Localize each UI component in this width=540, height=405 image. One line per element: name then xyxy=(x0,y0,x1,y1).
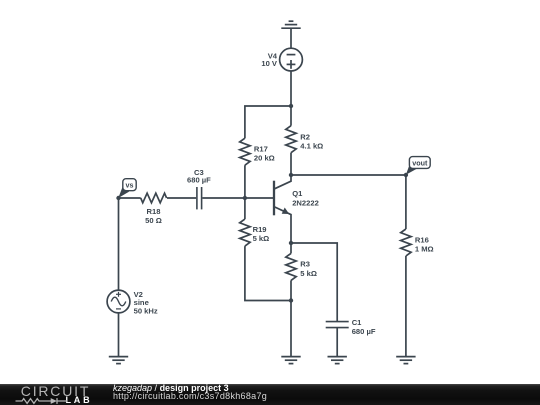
svg-text:50 Ω: 50 Ω xyxy=(145,216,162,225)
node emitter junction xyxy=(289,241,293,245)
ground (below V2) xyxy=(109,357,128,364)
node vout junction xyxy=(404,173,408,177)
resistor R16 1 MOhm xyxy=(401,175,434,357)
svg-text:R2: R2 xyxy=(300,132,310,141)
transistor Q1 2N2222 xyxy=(274,175,319,243)
ground (top, above V4) xyxy=(281,21,300,48)
svg-text:680 µF: 680 µF xyxy=(187,175,211,184)
svg-text:R16: R16 xyxy=(415,235,429,244)
wire V2 to ground xyxy=(118,313,120,357)
svg-text:sine: sine xyxy=(134,298,149,307)
wire R3 bottom node to ground xyxy=(290,301,292,357)
resistor R17 20 kOhm xyxy=(240,106,291,198)
capacitor C1 680 uF xyxy=(326,318,376,336)
svg-text:10 V: 10 V xyxy=(261,59,278,68)
voltage source V4 xyxy=(261,48,302,71)
svg-text:C1: C1 xyxy=(352,318,362,327)
node collector junction xyxy=(289,173,293,177)
node vs junction xyxy=(116,196,120,200)
net flag vout xyxy=(406,157,430,175)
svg-text:20 kΩ: 20 kΩ xyxy=(254,154,275,163)
svg-text:V2: V2 xyxy=(134,290,143,299)
wire vs node to V2 xyxy=(118,198,120,290)
resistor R19 5 kOhm xyxy=(240,198,291,301)
attribution line 1 xyxy=(113,384,229,393)
svg-text:1 MΩ: 1 MΩ xyxy=(415,245,434,254)
svg-text:5 kΩ: 5 kΩ xyxy=(300,269,317,278)
voltage source V2 sine xyxy=(107,290,158,315)
svg-text:5 kΩ: 5 kΩ xyxy=(253,234,270,243)
ground (below C1) xyxy=(328,357,347,364)
node base junction xyxy=(243,196,247,200)
svg-text:50 kHz: 50 kHz xyxy=(134,306,158,315)
wire C1 to ground xyxy=(336,328,338,357)
svg-text:R3: R3 xyxy=(300,260,310,269)
resistor R2 4.1 kOhm xyxy=(286,106,323,175)
svg-text:2N2222: 2N2222 xyxy=(292,198,319,207)
capacitor C3 680 uF xyxy=(167,168,245,210)
svg-text:vs: vs xyxy=(126,181,134,190)
resistor R18 50 Ohm xyxy=(119,193,167,225)
ground (below R3) xyxy=(281,357,300,364)
svg-text:R19: R19 xyxy=(253,225,267,234)
wire emitter node to C1 xyxy=(291,243,337,321)
wire collector node to vout node xyxy=(291,174,406,176)
CircuitLab logo resistor and diode symbol xyxy=(15,396,67,405)
svg-text:vout: vout xyxy=(412,158,428,167)
resistor R3 5 kOhm xyxy=(286,243,317,301)
svg-text:R17: R17 xyxy=(254,145,268,154)
svg-text:Q1: Q1 xyxy=(292,189,303,198)
wire base wire xyxy=(245,197,273,199)
attribution line 2 xyxy=(113,392,267,401)
svg-text:R18: R18 xyxy=(147,207,161,216)
node R3 bottom junction xyxy=(289,298,293,302)
net flag vs xyxy=(118,179,136,198)
ground (below R16) xyxy=(396,357,415,364)
CircuitLab logo wordmark LAB xyxy=(66,397,93,404)
svg-text:680 µF: 680 µF xyxy=(352,327,376,336)
wire V4 to rail node xyxy=(290,71,292,106)
CircuitLab logo wordmark CIRCUIT xyxy=(21,386,90,397)
node rail junction xyxy=(289,104,293,108)
svg-text:4.1 kΩ: 4.1 kΩ xyxy=(300,142,323,151)
